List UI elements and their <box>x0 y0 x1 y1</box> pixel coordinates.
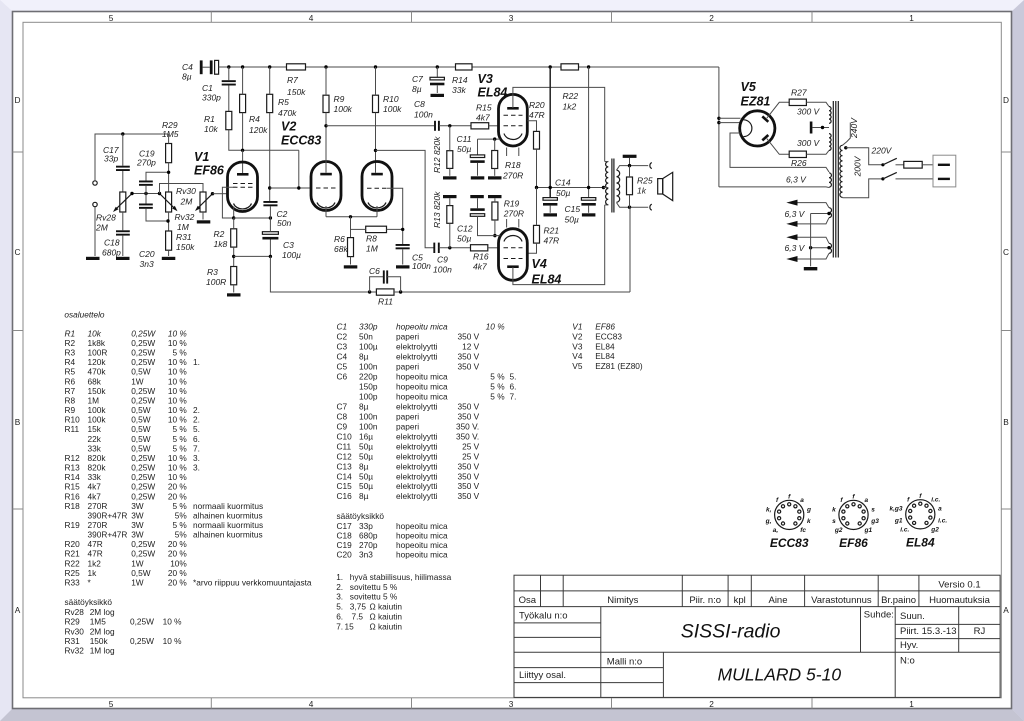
svg-text:350 V: 350 V <box>458 411 480 421</box>
svg-text:V2: V2 <box>281 120 296 134</box>
svg-text:paperi: paperi <box>396 421 419 431</box>
wire R6 top <box>350 217 352 238</box>
svg-text:4k7: 4k7 <box>476 113 490 123</box>
node C1 <box>227 65 230 68</box>
V1 g3 to cathode bracket <box>222 187 236 218</box>
resistor R5 <box>267 94 297 118</box>
svg-text:sovitettu 5 %: sovitettu 5 % <box>350 582 398 592</box>
svg-text:1k8: 1k8 <box>214 239 228 249</box>
tone bus wire <box>132 193 160 195</box>
svg-text:a,: a, <box>773 527 779 534</box>
svg-text:C20: C20 <box>139 249 155 259</box>
svg-text:1M5: 1M5 <box>90 617 107 627</box>
svg-text:Osa: Osa <box>519 595 537 606</box>
svg-text:g,: g, <box>765 518 772 525</box>
wire V3 anode to OPT <box>513 87 605 161</box>
svg-text:R8: R8 <box>65 396 76 406</box>
svg-text:270R: 270R <box>88 501 108 511</box>
input terminal bottom <box>93 202 97 206</box>
capacitor C18 <box>102 230 130 257</box>
svg-text:4: 4 <box>309 13 314 23</box>
V1 cathode lead <box>233 207 235 219</box>
svg-text:R11: R11 <box>378 297 393 307</box>
svg-text:ECC83: ECC83 <box>770 536 809 550</box>
svg-text:1k: 1k <box>88 568 98 578</box>
wire V2R grid out right <box>387 188 403 244</box>
svg-text:0,5W: 0,5W <box>131 443 151 453</box>
svg-text:g2: g2 <box>834 527 843 534</box>
svg-text:7.: 7. <box>510 392 517 402</box>
wire C17 to Rv28 <box>122 171 124 192</box>
transformer core <box>833 101 838 258</box>
wire B+ vertical to C14 <box>549 67 551 198</box>
node V1 anode <box>241 149 244 152</box>
svg-text:g2: g2 <box>930 527 939 534</box>
capacitor C17 <box>103 145 130 171</box>
svg-text:elektrolyytti: elektrolyytti <box>396 352 438 362</box>
heater winding 2 bottom lead <box>798 218 830 224</box>
node Rv28 wiper <box>130 192 133 195</box>
heater winding 2 top lead <box>798 203 830 208</box>
wire R13 bottom <box>449 223 451 248</box>
svg-text:5 %: 5 % <box>173 520 188 530</box>
svg-text:R25: R25 <box>637 176 653 186</box>
resistor R14 <box>452 64 472 95</box>
svg-text:R18: R18 <box>505 160 521 170</box>
svg-text:EF86: EF86 <box>595 322 615 332</box>
wire feedback branch down <box>270 256 376 292</box>
wire R21 top <box>536 188 538 226</box>
node R9 top <box>324 65 327 68</box>
svg-text:3.: 3. <box>193 463 200 473</box>
resistor R16 <box>471 245 489 272</box>
svg-text:3,75: 3,75 <box>350 602 367 612</box>
svg-text:200V: 200V <box>852 155 862 177</box>
svg-text:R15: R15 <box>65 482 81 492</box>
capacitor C2 <box>263 201 291 228</box>
svg-text:5: 5 <box>109 699 114 709</box>
feedback resistor R11 <box>376 289 394 307</box>
node centre tap <box>821 126 824 129</box>
svg-text:hyvä stabiilisuus, hiilimassa: hyvä stabiilisuus, hiilimassa <box>350 572 452 582</box>
svg-text:R25: R25 <box>65 568 81 578</box>
HV centre tap bar <box>810 122 813 134</box>
wire C3 leads <box>269 218 271 232</box>
resistor R31 <box>166 231 196 252</box>
wire R29 top <box>168 134 170 144</box>
svg-text:0,25W: 0,25W <box>131 328 156 338</box>
B+ screen feed node <box>549 65 552 68</box>
svg-text:2M log: 2M log <box>90 626 115 636</box>
svg-text:C: C <box>1003 247 1009 257</box>
wire input bottom to ground <box>94 207 96 256</box>
svg-text:50µ: 50µ <box>359 481 373 491</box>
ground <box>804 267 818 270</box>
svg-text:R7: R7 <box>65 386 76 396</box>
wire R9 bottom to V2L anode <box>325 113 327 173</box>
node R31 top <box>166 219 169 222</box>
svg-text:47R: 47R <box>529 110 545 120</box>
svg-text:Piirt. 15.3.-13: Piirt. 15.3.-13 <box>900 626 957 637</box>
svg-text:300 V: 300 V <box>797 138 821 148</box>
potentiometer Rv28 <box>95 192 132 233</box>
svg-text:10 %: 10 % <box>168 357 188 367</box>
svg-text:R21: R21 <box>65 549 81 559</box>
svg-text:0,25W: 0,25W <box>131 396 155 406</box>
V2R anode plate <box>371 173 383 176</box>
svg-text:R2: R2 <box>214 229 225 239</box>
svg-text:V5: V5 <box>572 361 583 371</box>
svg-text:5%: 5% <box>175 510 188 520</box>
svg-text:1M: 1M <box>177 222 190 232</box>
switch 2 <box>881 172 933 180</box>
wire R10 bottom to V2R anode <box>375 113 377 173</box>
resistor R12 <box>432 136 453 173</box>
svg-text:s: s <box>871 506 875 513</box>
svg-text:Huomautuksia: Huomautuksia <box>929 595 990 606</box>
svg-text:sovitettu 5 %: sovitettu 5 % <box>350 592 398 602</box>
svg-text:R8: R8 <box>366 234 377 244</box>
wire heater taps to ground <box>810 214 812 267</box>
tube V5 EZ81 <box>740 80 775 146</box>
node R8 C5 <box>401 228 404 231</box>
svg-text:0,25W: 0,25W <box>131 472 155 482</box>
capacitor C5 <box>396 244 432 271</box>
svg-text:3W: 3W <box>131 520 144 530</box>
svg-text:270R: 270R <box>503 209 524 219</box>
svg-text:a: a <box>938 506 942 513</box>
svg-text:10 %: 10 % <box>168 367 188 377</box>
svg-text:C6: C6 <box>369 266 380 276</box>
V1 anode plate <box>237 173 249 176</box>
svg-text:A: A <box>1003 605 1009 615</box>
node secondary top <box>628 164 631 167</box>
heater winding 3 bottom lead <box>798 253 830 259</box>
wire anode lead V1 <box>242 150 244 174</box>
svg-text:20 %: 20 % <box>168 549 188 559</box>
capacitor C1 <box>202 67 236 111</box>
svg-text:V1: V1 <box>572 322 582 332</box>
svg-text:0,25W: 0,25W <box>131 357 155 367</box>
node Rv32 wiper <box>211 192 214 195</box>
svg-text:4k7: 4k7 <box>88 482 102 492</box>
V4 anode plate <box>507 265 519 268</box>
svg-text:10 %: 10 % <box>168 415 188 425</box>
wire C19 to C20 <box>145 186 147 204</box>
svg-text:C: C <box>15 247 21 257</box>
svg-text:i.c.: i.c. <box>931 496 940 503</box>
svg-text:7.5: 7.5 <box>352 612 364 622</box>
svg-text:EF86: EF86 <box>839 536 868 550</box>
node R6 tap <box>349 215 352 218</box>
V1 grids dashed <box>233 183 253 185</box>
svg-text:3W: 3W <box>131 530 144 540</box>
svg-text:V4: V4 <box>532 257 547 271</box>
svg-text:4k7: 4k7 <box>88 491 102 501</box>
svg-text:R4: R4 <box>65 357 76 367</box>
svg-text:R27: R27 <box>791 88 807 98</box>
svg-text:C16: C16 <box>337 491 353 501</box>
svg-text:330p: 330p <box>359 322 378 332</box>
svg-text:elektrolyytti: elektrolyytti <box>396 342 438 352</box>
svg-text:C14: C14 <box>337 471 353 481</box>
svg-text:330p: 330p <box>202 93 221 103</box>
svg-text:120k: 120k <box>88 357 107 367</box>
ground <box>162 257 176 260</box>
svg-text:R7: R7 <box>287 75 298 85</box>
wire C8 right to R15 node <box>439 125 471 127</box>
potentiometer Rv30 <box>160 186 197 212</box>
svg-text:50n: 50n <box>359 332 373 342</box>
svg-text:Br.paino: Br.paino <box>881 595 916 606</box>
node R29 C19 <box>167 171 170 174</box>
arrow heater 2 top <box>786 200 797 206</box>
svg-text:3.: 3. <box>336 592 343 602</box>
wire R18 bottom <box>494 169 496 176</box>
svg-text:10 %: 10 % <box>168 405 188 415</box>
node C6 left <box>368 290 371 293</box>
resistor R6 <box>334 234 354 257</box>
V3 anode plate <box>507 107 519 110</box>
svg-text:100µ: 100µ <box>282 250 301 260</box>
svg-text:i.c.: i.c. <box>938 517 947 524</box>
wire secondary ground lead <box>629 158 631 166</box>
output transformer primary <box>606 162 609 205</box>
svg-text:10k: 10k <box>204 124 218 134</box>
svg-text:R20: R20 <box>529 100 545 110</box>
tube V1 EF86 <box>194 150 258 212</box>
svg-text:C3: C3 <box>283 240 294 250</box>
svg-text:6.: 6. <box>336 612 343 622</box>
wire heater 3 centre tap <box>811 247 829 249</box>
svg-text:0,5W: 0,5W <box>131 367 151 377</box>
svg-text:2.: 2. <box>336 582 343 592</box>
node C9 R13 R16 <box>448 246 451 249</box>
svg-text:V3: V3 <box>572 341 583 351</box>
wire R1 to anode node <box>229 130 299 151</box>
potentiometer Rv32 <box>175 192 213 232</box>
svg-text:0,25W: 0,25W <box>131 453 155 463</box>
svg-text:g1: g1 <box>894 517 903 524</box>
svg-text:alhainen kuormitus: alhainen kuormitus <box>193 530 263 540</box>
svg-text:3.: 3. <box>193 453 200 463</box>
svg-text:R19: R19 <box>504 199 520 209</box>
socket EL84 <box>889 493 947 534</box>
input terminal top <box>93 181 97 185</box>
node heater tap join <box>809 246 812 249</box>
svg-text:C2: C2 <box>337 332 348 342</box>
svg-text:2: 2 <box>709 13 714 23</box>
svg-text:12 V: 12 V <box>462 342 480 352</box>
svg-text:hopeoitu mica: hopeoitu mica <box>396 372 448 382</box>
svg-text:20 %: 20 % <box>168 539 188 549</box>
node secondary bottom <box>628 206 631 209</box>
svg-text:20 %: 20 % <box>168 578 188 588</box>
svg-text:Työkalu n:o: Työkalu n:o <box>519 611 568 622</box>
svg-text:R31: R31 <box>176 232 192 242</box>
svg-text:8µ: 8µ <box>359 402 369 412</box>
svg-text:7.: 7. <box>193 443 200 453</box>
speaker terminal hook top <box>650 163 652 169</box>
wire R5 top <box>269 67 271 94</box>
svg-text:B: B <box>1003 417 1009 427</box>
svg-text:350 V.: 350 V. <box>456 431 479 441</box>
svg-text:EL84: EL84 <box>478 86 508 100</box>
wire C18 to ground <box>122 236 124 256</box>
svg-text:5 %: 5 % <box>173 424 188 434</box>
svg-text:15k: 15k <box>88 424 102 434</box>
wire R13 top <box>449 198 451 205</box>
svg-text:100n: 100n <box>359 411 378 421</box>
wire grid V1 <box>213 193 228 195</box>
svg-text:D: D <box>1003 95 1009 105</box>
svg-text:C13: C13 <box>337 461 353 471</box>
resistor R15 <box>471 103 492 129</box>
svg-text:100R: 100R <box>206 277 226 287</box>
svg-text:270p: 270p <box>359 540 378 550</box>
svg-text:47R: 47R <box>88 549 103 559</box>
svg-text:1W: 1W <box>131 376 144 386</box>
arrow heater 3 top <box>786 234 797 240</box>
svg-text:MULLARD 5-10: MULLARD 5-10 <box>718 665 842 685</box>
svg-text:120k: 120k <box>249 125 268 135</box>
svg-text:0,25W: 0,25W <box>131 463 155 473</box>
svg-text:150k: 150k <box>90 636 109 646</box>
svg-text:B: B <box>15 417 21 427</box>
capacitor C4 <box>182 60 219 81</box>
V3 heater stubs <box>506 148 508 157</box>
svg-text:R12 820k: R12 820k <box>432 136 442 173</box>
svg-text:16µ: 16µ <box>359 431 373 441</box>
svg-text:elektrolyytti: elektrolyytti <box>396 481 438 491</box>
svg-text:0,5W: 0,5W <box>131 405 151 415</box>
wire R21 bottom to V4 screen <box>527 243 536 253</box>
resistor R20 <box>529 100 545 149</box>
wire V5 cathode return <box>730 133 829 172</box>
svg-text:elektrolyytti: elektrolyytti <box>396 441 438 451</box>
node C6 right <box>399 290 402 293</box>
svg-text:0,25W: 0,25W <box>131 539 155 549</box>
svg-text:C15: C15 <box>337 481 353 491</box>
wire Rv28 to C18 <box>122 212 124 230</box>
ground <box>488 176 502 179</box>
svg-text:1k: 1k <box>637 186 647 196</box>
svg-text:C14: C14 <box>555 178 571 188</box>
svg-text:10 %: 10 % <box>163 636 183 646</box>
wire R3 to ground <box>233 285 235 293</box>
svg-text:5 %: 5 % <box>173 348 188 358</box>
node V2 grid <box>268 186 271 189</box>
svg-text:350 V: 350 V <box>458 332 480 342</box>
svg-text:50µ: 50µ <box>359 441 373 451</box>
wire 220V tap to switch <box>846 148 883 165</box>
svg-text:390R+47R: 390R+47R <box>88 530 128 540</box>
ground <box>86 257 100 260</box>
svg-text:25 V: 25 V <box>462 451 480 461</box>
svg-text:k: k <box>832 506 836 513</box>
svg-text:100n: 100n <box>359 362 378 372</box>
mains plug <box>933 155 956 187</box>
wire R6 to ground <box>350 257 352 265</box>
V5 anode plate bottom <box>762 135 768 140</box>
svg-text:C11: C11 <box>337 441 352 451</box>
svg-text:47R: 47R <box>544 236 560 246</box>
wire R20 bottom to screen node <box>536 149 538 187</box>
svg-text:g: g <box>806 506 811 513</box>
svg-text:hopeoitu mica: hopeoitu mica <box>396 521 448 531</box>
svg-text:paperi: paperi <box>396 362 419 372</box>
wire C20 to R31 node <box>146 209 168 221</box>
svg-text:100k: 100k <box>383 104 402 114</box>
svg-text:100k: 100k <box>334 104 353 114</box>
svg-text:R5: R5 <box>65 367 76 377</box>
svg-text:k,g3: k,g3 <box>889 506 902 513</box>
socket ECC83 <box>765 493 811 534</box>
primary centre tap <box>604 187 609 189</box>
heater winding 2 <box>829 208 832 218</box>
ground above R13 <box>443 195 457 198</box>
svg-text:R10: R10 <box>65 415 81 425</box>
svg-text:1k2: 1k2 <box>563 102 577 112</box>
svg-text:k,: k, <box>766 506 772 513</box>
capacitor C9 <box>433 243 452 275</box>
svg-text:150k: 150k <box>176 242 195 252</box>
svg-text:3W: 3W <box>131 501 144 511</box>
svg-text:R13: R13 <box>65 463 81 473</box>
wire R29 bottom to Rv30 <box>168 163 170 192</box>
svg-text:elektrolyytti: elektrolyytti <box>396 451 438 461</box>
svg-text:C18: C18 <box>337 531 353 541</box>
svg-text:elektrolyytti: elektrolyytti <box>396 471 438 481</box>
svg-text:390R+47R: 390R+47R <box>88 510 128 520</box>
svg-text:100n: 100n <box>359 421 378 431</box>
resistor R26 <box>789 151 807 168</box>
svg-text:C11: C11 <box>457 134 472 144</box>
svg-text:5.: 5. <box>193 424 200 434</box>
switch 1 <box>881 158 903 166</box>
svg-text:osaluettelo: osaluettelo <box>64 310 105 320</box>
node C3 bottom <box>269 255 272 258</box>
svg-text:220p: 220p <box>359 372 378 382</box>
svg-text:350 V: 350 V <box>458 352 480 362</box>
svg-text:*arvo riippuu verkkomuuntajast: *arvo riippuu verkkomuuntajasta <box>193 578 312 588</box>
node R4 <box>241 65 244 68</box>
secondary ground <box>623 155 637 158</box>
ground <box>396 265 410 268</box>
svg-text:1.: 1. <box>193 357 200 367</box>
node 220V tap <box>844 146 847 149</box>
resistor R21 <box>534 225 560 245</box>
wire V2R anode to C9 column <box>376 150 435 247</box>
wire R25 leads <box>629 166 631 177</box>
primary 240V stub <box>843 123 851 146</box>
svg-text:V4: V4 <box>572 351 583 361</box>
svg-text:3n3: 3n3 <box>359 550 373 560</box>
svg-text:R26: R26 <box>791 158 807 168</box>
svg-text:820k: 820k <box>88 463 107 473</box>
wire C2 to cathode node <box>269 206 271 218</box>
tube V2 ECC83 right triode <box>362 162 392 211</box>
wire R4 leads <box>242 67 244 94</box>
resistor R25 <box>627 176 653 196</box>
svg-text:säätöyksikkö: säätöyksikkö <box>337 511 385 521</box>
svg-text:hopeoitu mica: hopeoitu mica <box>396 540 448 550</box>
svg-text:5 %: 5 % <box>490 372 505 382</box>
svg-text:normaali kuormitus: normaali kuormitus <box>193 520 263 530</box>
svg-text:8µ: 8µ <box>359 491 369 501</box>
arrow heater 3 bottom <box>786 256 797 262</box>
svg-text:EL84: EL84 <box>906 535 935 549</box>
